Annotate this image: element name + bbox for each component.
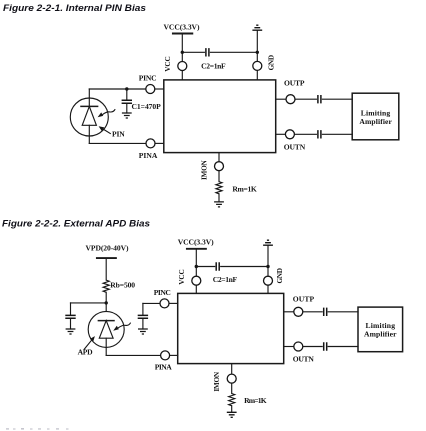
svg-text:PINC: PINC	[139, 74, 157, 83]
svg-text:PIN: PIN	[112, 129, 125, 138]
svg-text:OUTP: OUTP	[284, 78, 305, 87]
svg-text:Amplifier: Amplifier	[364, 330, 397, 339]
svg-text:PINA: PINA	[139, 151, 158, 160]
svg-text:Rm=1K: Rm=1K	[244, 396, 267, 405]
svg-text:GND: GND	[275, 268, 284, 284]
svg-text:OUTN: OUTN	[293, 354, 315, 363]
svg-text:GND: GND	[266, 55, 275, 71]
svg-text:OUTN: OUTN	[284, 143, 306, 152]
svg-text:VCC(3.3V): VCC(3.3V)	[164, 22, 200, 31]
svg-text:Rb=500: Rb=500	[110, 280, 135, 289]
svg-text:C2=1nF: C2=1nF	[213, 275, 238, 284]
svg-text:Amplifier: Amplifier	[359, 117, 392, 126]
svg-text:C1=470P: C1=470P	[132, 102, 162, 111]
svg-text:IMON: IMON	[200, 159, 209, 180]
svg-text:Rm=1K: Rm=1K	[232, 184, 256, 193]
svg-text:OUTP: OUTP	[293, 294, 315, 303]
svg-text:VCC: VCC	[163, 56, 172, 72]
svg-text:Limiting: Limiting	[361, 108, 391, 117]
svg-text:PINA: PINA	[155, 362, 173, 371]
svg-text:VCC(3.3V): VCC(3.3V)	[178, 238, 214, 247]
svg-text:IMON: IMON	[212, 371, 221, 392]
svg-text:Figure 2-2-1. Internal PIN Bia: Figure 2-2-1. Internal PIN Bias	[3, 2, 146, 13]
svg-text:VPD(20-40V): VPD(20-40V)	[86, 243, 129, 252]
svg-text:Figure 2-2-2. External APD Bia: Figure 2-2-2. External APD Bias	[2, 218, 150, 229]
svg-text:VCC: VCC	[177, 269, 186, 285]
svg-text:APD: APD	[78, 348, 94, 357]
svg-text:PINC: PINC	[154, 288, 171, 297]
svg-text:C2=1nF: C2=1nF	[201, 62, 226, 71]
svg-text:Limiting: Limiting	[366, 321, 396, 330]
